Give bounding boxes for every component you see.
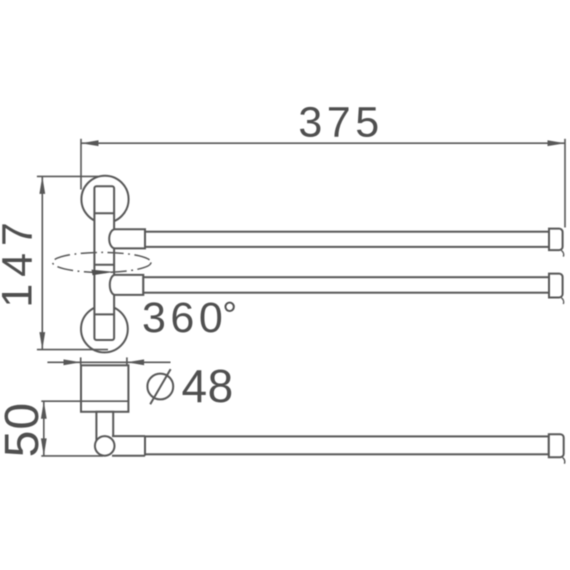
upper cap flick [561,250,563,256]
dim 50 bottom arrow [41,438,47,456]
rotation ellipse dash-dot [53,252,151,272]
dim 375 right extension line [564,139,566,228]
dia48 left arrow [64,359,81,365]
dim 375 left arrow [81,140,99,146]
lower arm hub [110,275,144,295]
dimension diameter 48 line [47,357,170,365]
upper arm bar [145,232,549,247]
lower arm end cap [549,274,563,298]
side cap flick [563,457,565,463]
side view hub [110,436,145,456]
side view end cap [549,434,564,457]
side view bar [145,436,549,454]
dim 147 bottom arrow [39,332,45,350]
post middle joint line [94,264,114,266]
diameter symbol circle [147,374,173,400]
post collar line top [94,212,114,214]
upper arm end cap [549,229,563,251]
svg-text:375: 375 [298,99,383,147]
post collar line bottom [94,313,114,315]
dia48 right arrow [127,359,144,365]
dimension 147 line [37,176,108,349]
side view stem [96,412,113,440]
dim 147 top extension line [37,175,98,177]
svg-text:147: 147 [0,215,41,307]
side view pivot ball [95,436,115,456]
lower arm bar [143,277,549,293]
diameter symbol slash [150,369,170,404]
side view hub-bar junction [144,436,146,456]
top rosette circle [81,176,128,223]
dimension 50 line [41,401,103,456]
dim 50 bottom extension line [41,455,103,457]
upper arm hub [109,229,145,248]
dim 147 bottom extension line [37,349,108,351]
dim 375 left extension line [80,139,82,190]
dia48 left extension stub [80,357,82,365]
dim 375 right arrow [548,140,566,146]
rotation arrowhead [92,270,115,276]
dimension 375 line [81,139,565,228]
lower cap flick [561,298,563,304]
dim 147 top arrow [39,176,45,194]
vertical post [94,186,114,340]
dim 50 top arrow [41,401,47,419]
svg-text:48: 48 [182,360,234,412]
side view flange collar line + dim50 top extension [41,400,128,402]
svg-text:360°: 360° [142,294,242,342]
svg-text:50: 50 [0,402,49,457]
side view flange [81,365,128,412]
bottom rosette circle [81,306,128,353]
dia48 right extension stub [126,357,128,365]
